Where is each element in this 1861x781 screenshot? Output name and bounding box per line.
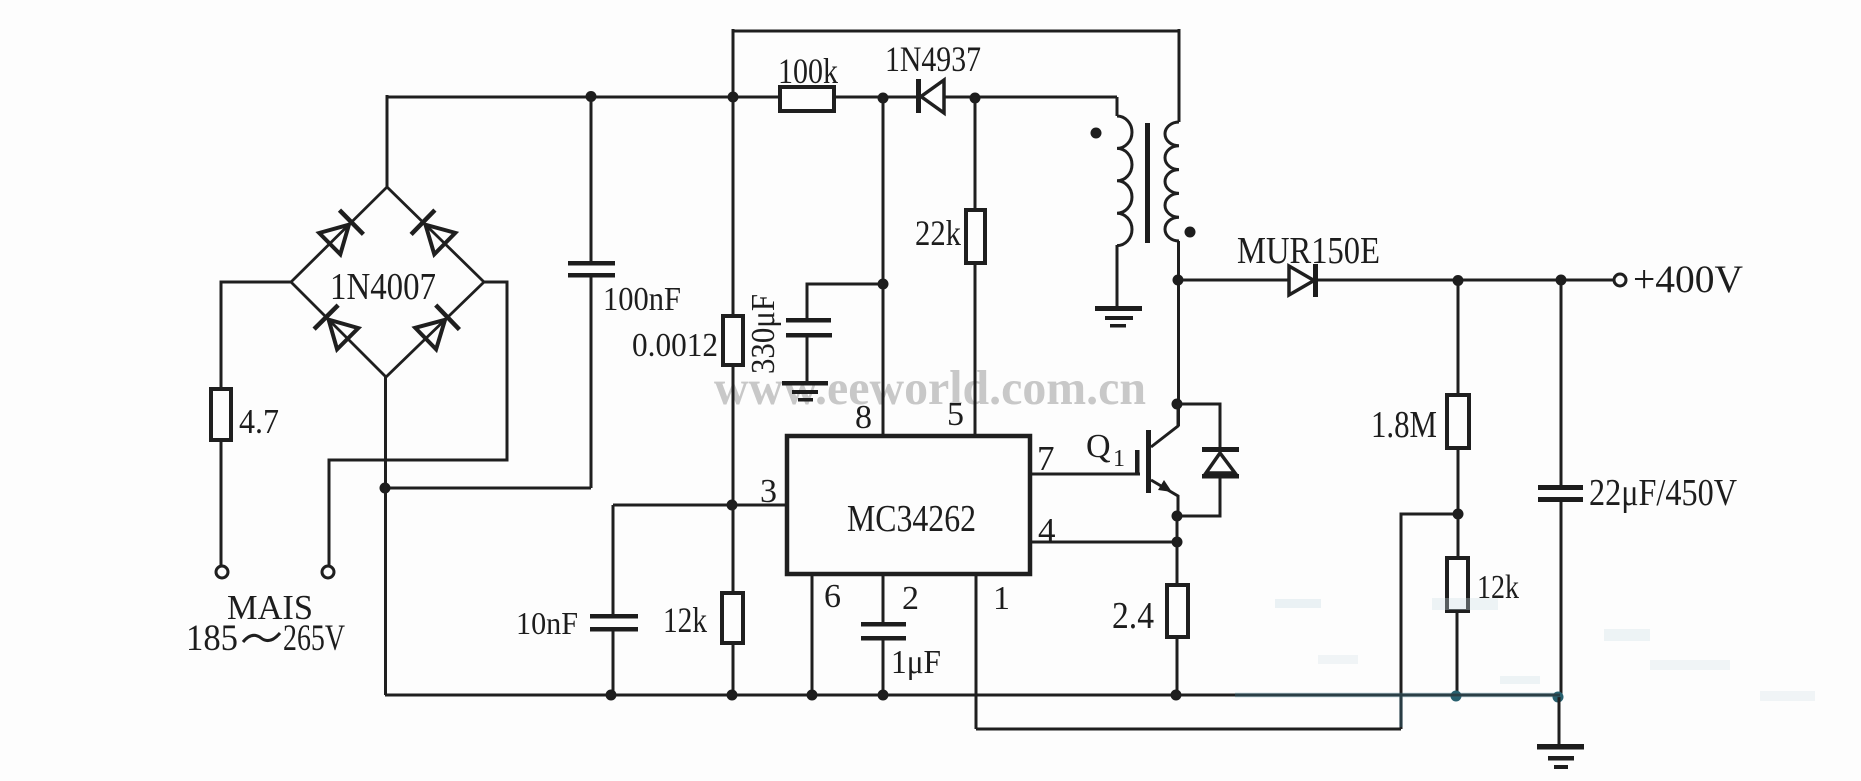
svg-text:10nF: 10nF xyxy=(516,605,578,641)
wire loop up to divider junction xyxy=(1401,514,1458,729)
wire 22uF top lead xyxy=(1560,280,1563,486)
svg-text:1N4007: 1N4007 xyxy=(330,266,436,308)
wire pin6 to rail xyxy=(811,574,814,695)
resistor 4.7 xyxy=(211,389,231,440)
wire rail 100k to diode xyxy=(834,96,917,99)
wire bridge right vertex lead xyxy=(329,282,507,566)
svg-text:5: 5 xyxy=(947,396,964,433)
node dot at 22k top xyxy=(970,93,981,104)
wire 22uF node to ground xyxy=(1558,697,1561,744)
wire 12k to rail xyxy=(732,643,735,695)
node dot 10nF rail xyxy=(606,690,617,701)
svg-text:0.0012: 0.0012 xyxy=(632,327,718,364)
bridge diamond 1N4007 xyxy=(291,187,484,377)
node dot 2.4 rail xyxy=(1171,690,1182,701)
wire pin1 bottom loop xyxy=(976,728,1401,731)
diode MUR150E xyxy=(1289,264,1318,297)
wire pin2 to 1uF xyxy=(882,574,885,624)
node dot divider junction xyxy=(1453,509,1464,520)
resistor 100k xyxy=(780,87,834,111)
svg-text:3: 3 xyxy=(760,473,777,510)
node dot at 0.0012 top xyxy=(728,92,739,103)
faint watermark remnants bottom right xyxy=(1275,598,1815,701)
node dot pin6 rail xyxy=(807,690,818,701)
wire 1.8M top lead xyxy=(1457,280,1460,395)
svg-text:22μF/450V: 22μF/450V xyxy=(1589,472,1737,514)
svg-text:1: 1 xyxy=(1113,446,1125,472)
capacitor 100nF xyxy=(568,97,615,488)
svg-text:MUR150E: MUR150E xyxy=(1237,230,1380,272)
ground under 330uF xyxy=(782,381,828,402)
wire bridge left vertex lead xyxy=(221,282,291,389)
wire top loop horizontal xyxy=(733,30,1179,33)
svg-text:1: 1 xyxy=(993,580,1010,617)
node dot 22uF top xyxy=(1556,275,1567,286)
wire main top rail left segment xyxy=(387,96,780,99)
node dot pin3 junction xyxy=(727,500,738,511)
wire pin1 drop xyxy=(975,574,978,729)
terminal circle right MAIS xyxy=(322,566,334,578)
bridge diode lower-left xyxy=(314,305,360,351)
transformer primary winding xyxy=(1165,122,1179,241)
wire Vcc vertical pin8 xyxy=(882,97,885,436)
capacitor 22uF/450V xyxy=(1538,485,1583,697)
svg-text:6: 6 xyxy=(824,578,841,615)
svg-text:7: 7 xyxy=(1037,439,1055,478)
transistor Q1 xyxy=(1030,404,1178,516)
wire aux winding top drop xyxy=(1116,97,1119,116)
diode 1N4937 xyxy=(916,79,944,113)
node dot emitter xyxy=(1172,511,1183,522)
svg-text:12k: 12k xyxy=(663,600,707,640)
freewheel diode across Q1 xyxy=(1177,404,1239,516)
capacitor 1uF xyxy=(861,622,906,695)
terminal circle +400V xyxy=(1614,274,1626,286)
svg-text:1N4937: 1N4937 xyxy=(885,39,981,79)
node dot 330uF junction xyxy=(878,279,889,290)
phase dot primary winding xyxy=(1185,227,1196,238)
resistor 12k right xyxy=(1447,558,1468,611)
wire 22k to pin5 xyxy=(974,263,977,436)
node dot 12k rail xyxy=(727,690,738,701)
phase dot aux winding xyxy=(1091,128,1102,139)
wire 1.8M to 12k xyxy=(1457,448,1460,558)
capacitor 330uF xyxy=(786,318,832,381)
resistor 2.4 xyxy=(1167,585,1188,637)
svg-text:100nF: 100nF xyxy=(603,281,681,318)
wire 10nF top lead xyxy=(612,505,615,615)
wire primary bottom down to collector xyxy=(1177,241,1180,426)
bridge diode upper-right xyxy=(411,210,457,256)
ground bottom right xyxy=(1537,744,1584,769)
node dot after 100k xyxy=(878,93,889,104)
wire emitter to 2.4 xyxy=(1176,516,1179,585)
resistor 1.8M xyxy=(1447,395,1469,448)
node dot 1.8M top xyxy=(1453,275,1464,286)
resistor 22k xyxy=(966,210,985,263)
svg-text:185: 185 xyxy=(186,618,238,659)
wire MUR150E to output terminal xyxy=(1318,279,1614,282)
wire pin4 xyxy=(1030,541,1177,544)
svg-text:22k: 22k xyxy=(915,213,961,253)
wire 0.0012 top lead xyxy=(732,97,735,316)
IC MC34262 xyxy=(787,436,1030,574)
transformer core xyxy=(1145,123,1150,243)
svg-text:100k: 100k xyxy=(778,51,838,91)
wire 0.0012 bottom to pin3 node xyxy=(732,365,735,505)
svg-text:+400V: +400V xyxy=(1633,258,1743,301)
terminal circle left MAIS xyxy=(216,566,228,578)
transformer aux winding xyxy=(1117,116,1132,246)
svg-text:4: 4 xyxy=(1038,511,1056,550)
wire 100nF bottom to bridge minus xyxy=(385,487,591,490)
wire pin3 node down to 12k xyxy=(732,505,735,593)
svg-text:Q: Q xyxy=(1086,428,1111,465)
wire top loop right drop to primary winding xyxy=(1178,29,1181,122)
node dot 12k right rail (teal) xyxy=(1451,691,1462,702)
node dot bridge minus xyxy=(380,483,391,494)
svg-text:4.7: 4.7 xyxy=(239,402,279,441)
wire 12k right to rail xyxy=(1456,611,1459,696)
wire pin3 horizontal xyxy=(613,504,787,507)
node dot pin4 xyxy=(1172,537,1183,548)
bridge diode upper-left xyxy=(318,210,364,256)
label Q1 xyxy=(1086,428,1125,472)
ground under aux winding xyxy=(1095,306,1142,328)
bridge diode lower-right xyxy=(414,305,460,351)
capacitor 10nF xyxy=(590,614,638,695)
watermark www.eeworld.com.cn xyxy=(714,360,1146,415)
svg-text:2.4: 2.4 xyxy=(1112,595,1154,637)
wire 2.4 to rail xyxy=(1176,637,1179,695)
wire 22k top lead xyxy=(974,97,977,210)
wire bridge top lead xyxy=(386,95,389,187)
node dot 1uF rail xyxy=(878,690,889,701)
wire top loop left drop xyxy=(732,29,735,97)
wire rail diode to aux winding xyxy=(944,96,1117,99)
node dot MUR150E junction xyxy=(1173,275,1184,286)
svg-text:265V: 265V xyxy=(283,618,345,659)
svg-text:2: 2 xyxy=(902,580,919,617)
resistor 12k left xyxy=(722,593,743,643)
label 185~265V xyxy=(186,618,345,659)
node dot collector junction xyxy=(1172,399,1183,410)
svg-text:1.8M: 1.8M xyxy=(1371,404,1437,446)
svg-text:8: 8 xyxy=(855,399,872,436)
teal tint on loop vertical xyxy=(1399,697,1403,727)
node dot 22uF rail (teal) xyxy=(1553,692,1564,703)
svg-text:MC34262: MC34262 xyxy=(847,498,976,540)
wire MUR150E left lead xyxy=(1178,279,1289,282)
wire 330uF top lead xyxy=(807,284,883,319)
teal tint on rail xyxy=(1235,693,1560,698)
svg-text:330μF: 330μF xyxy=(745,294,782,374)
wire bottom ground rail xyxy=(385,694,1560,697)
svg-text:1μF: 1μF xyxy=(891,644,941,681)
wire 4.7 to terminal xyxy=(220,440,223,566)
wire aux winding to ground xyxy=(1116,245,1119,306)
wire bridge bottom vertex down to rail xyxy=(384,377,387,695)
node dot at 100nF top xyxy=(586,91,597,102)
resistor 0.0012 xyxy=(723,316,743,365)
